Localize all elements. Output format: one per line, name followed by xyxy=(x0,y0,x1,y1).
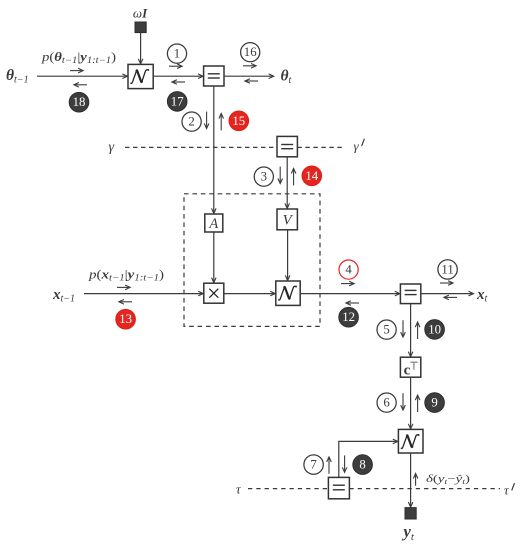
wire c^T down to N (bottom) xyxy=(410,377,412,429)
message circle 17 (dark) xyxy=(167,92,187,112)
svg-text:10: 10 xyxy=(428,322,441,336)
dashed wire tau right segment xyxy=(349,488,500,490)
svg-text:A: A xyxy=(208,216,218,232)
message arrow down (left of wire) xyxy=(402,393,404,410)
message circle 10 (dark) xyxy=(425,320,445,340)
message arrow up (right of wire) xyxy=(417,322,419,339)
svg-text:17: 17 xyxy=(171,94,184,108)
svg-text:ωI: ωI xyxy=(133,6,148,21)
wire V down to N xyxy=(287,230,289,280)
message circle 4 (red outline) xyxy=(339,260,358,279)
svg-text:γ: γ xyxy=(109,140,115,155)
node equals (theta row) xyxy=(204,66,224,86)
svg-text:6: 6 xyxy=(383,396,390,410)
svg-text:8: 8 xyxy=(359,458,365,472)
node V xyxy=(277,209,297,230)
wire omega I square to N xyxy=(140,33,142,64)
svg-text:2: 2 xyxy=(188,115,194,129)
message arrow down (left of wire) xyxy=(402,320,404,337)
wire theta_{t-1} to N xyxy=(37,75,127,77)
svg-text:14: 14 xyxy=(305,169,318,183)
message circle 12 (dark) xyxy=(339,307,359,327)
node A xyxy=(205,214,223,232)
svg-text:12: 12 xyxy=(342,310,355,324)
message circle 16 xyxy=(241,43,260,62)
wire equals down to A (through gamma line) xyxy=(213,86,215,213)
message arrow down (left of wire) xyxy=(279,167,281,184)
message circle 5 xyxy=(377,320,396,339)
wire equals to theta_t xyxy=(224,75,274,77)
message circle 18 (dark) xyxy=(69,92,89,112)
message arrow backward below wire xyxy=(172,81,185,83)
wire N (bottom) down to y_t square xyxy=(410,453,412,507)
message circle 8 (dark) xyxy=(353,455,373,475)
message arrow backward after equals xyxy=(245,80,258,82)
svg-text:4: 4 xyxy=(345,263,352,277)
svg-text:γ: γ xyxy=(354,139,360,154)
message arrow up (right of wire) xyxy=(220,114,222,131)
wire equals down to c^T xyxy=(410,304,412,357)
message arrow backward (below theta wire) xyxy=(74,84,87,86)
terminal omega I (filled square) xyxy=(135,22,146,33)
message circle 6 xyxy=(377,393,396,412)
message arrow backward below x wire xyxy=(119,301,132,303)
node times (multiplier) xyxy=(204,283,224,303)
dashed wire tau left segment xyxy=(248,488,328,490)
message circle 9 (dark) xyxy=(425,393,445,413)
node equals (gamma row) xyxy=(277,136,297,156)
svg-text:3: 3 xyxy=(261,170,267,184)
node equals (tau row) xyxy=(328,477,349,498)
message arrow up (left of branch wire) xyxy=(328,457,330,474)
message arrow forward below circle 4 xyxy=(341,283,354,285)
svg-text:11: 11 xyxy=(441,262,453,276)
svg-text:9: 9 xyxy=(431,396,437,410)
svg-text:7: 7 xyxy=(310,458,317,472)
message arrow forward below circle 1 xyxy=(169,65,182,67)
terminal y_t (filled square) xyxy=(405,508,416,519)
dashed wire gamma left segment xyxy=(125,146,277,148)
svg-text:5: 5 xyxy=(383,323,389,337)
svg-text:16: 16 xyxy=(244,45,257,59)
svg-text:c: c xyxy=(404,362,411,378)
message arrow up (right of wire) xyxy=(417,395,419,412)
wire times to N (x row) xyxy=(224,293,275,295)
message arrow forward (above theta wire) xyxy=(70,70,83,72)
dashed wire gamma right segment xyxy=(297,146,344,148)
message circle 7 xyxy=(304,455,323,474)
svg-text:15: 15 xyxy=(232,114,245,128)
message arrow backward after equals xyxy=(444,296,457,298)
node N (Gaussian, bottom) xyxy=(398,429,423,453)
message circle 1 xyxy=(167,44,186,63)
svg-text:13: 13 xyxy=(119,312,132,326)
message circle 14 (red) xyxy=(302,166,322,186)
message arrow down (right of branch wire) xyxy=(344,455,346,472)
message arrow forward below circle 11 xyxy=(440,282,453,284)
message arrow up (delta message, right of wire) xyxy=(415,474,417,486)
wire branch: equals (tau) up and right into N left xyxy=(339,441,398,477)
wire equals to x_t xyxy=(421,293,474,295)
wire x_{t-1} to times xyxy=(84,293,203,295)
wire gamma equals down to V xyxy=(286,157,288,209)
node N (Gaussian, x row) xyxy=(276,281,300,305)
message circle 3 xyxy=(254,167,273,186)
message circle 13 (red) xyxy=(116,309,136,329)
node c^T xyxy=(400,357,420,378)
message circle 11 xyxy=(438,260,457,279)
message arrow up (right of wire) xyxy=(293,169,295,186)
message circle 2 xyxy=(182,112,201,131)
message circle 15 (red) xyxy=(229,111,249,131)
wire N to equals (x row) xyxy=(300,293,400,295)
node N (Gaussian, theta row) xyxy=(128,64,153,88)
message arrow forward above x wire xyxy=(117,286,130,288)
wire A down to times xyxy=(213,232,215,283)
dashed subsystem box xyxy=(184,194,320,327)
message arrow backward below wire xyxy=(346,302,359,304)
message arrow down (left of wire) xyxy=(206,112,208,129)
wire N to equals (theta row) xyxy=(153,75,203,77)
svg-text:18: 18 xyxy=(73,95,86,109)
svg-text:1: 1 xyxy=(174,47,180,61)
message arrow forward below circle 16 xyxy=(243,65,256,67)
node equals (x row) xyxy=(400,284,420,304)
